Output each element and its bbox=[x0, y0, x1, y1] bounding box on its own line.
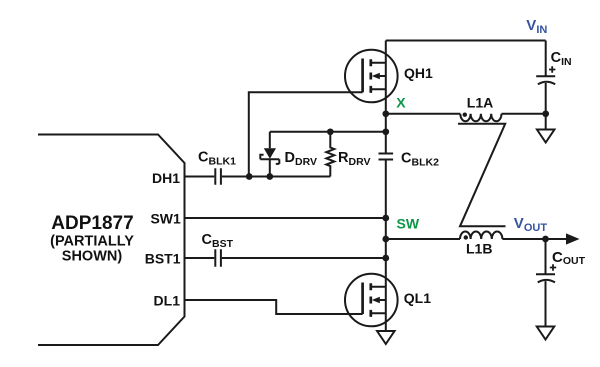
coupled core Z-link bbox=[458, 124, 506, 227]
wire SW line to L1B bbox=[386, 238, 460, 240]
output arrow V_OUT bbox=[566, 233, 580, 244]
capacitor C_BLK1 bbox=[215, 168, 221, 184]
junction SW/L1B line bbox=[382, 236, 389, 243]
junction BST line bbox=[382, 255, 389, 262]
wire ground stub under C_IN bbox=[545, 114, 547, 130]
wire X node line to L1A bbox=[386, 113, 461, 115]
svg-text:SW: SW bbox=[397, 216, 420, 232]
transistor QH1 arrow bbox=[372, 73, 380, 79]
wire main vertical: C_BLK2 bottom to ground bbox=[385, 160, 387, 332]
junction topwire/R_DRV bbox=[327, 128, 334, 135]
wire DH1 pin to C_BLK1 bbox=[185, 176, 215, 178]
diode D_DRV body bbox=[264, 148, 276, 159]
wire top rail to C_IN bbox=[386, 40, 546, 42]
svg-text:SHOWN): SHOWN) bbox=[62, 249, 123, 265]
svg-text:BST1: BST1 bbox=[145, 251, 181, 267]
svg-text:DL1: DL1 bbox=[154, 293, 181, 309]
wire BST1 pin to C_BST bbox=[185, 257, 215, 259]
inductor L1A bbox=[460, 114, 501, 122]
wire L1B to V_OUT node bbox=[502, 238, 566, 240]
svg-text:(PARTIALLY: (PARTIALLY bbox=[50, 234, 134, 250]
resistor R_DRV bbox=[326, 132, 334, 177]
junction V_OUT/C_OUT bbox=[542, 236, 549, 243]
IC U1 ADP1877 outline bbox=[38, 135, 185, 346]
wire L1A to C_IN junction bbox=[502, 113, 546, 115]
phase dot L1B bbox=[464, 235, 468, 239]
wire C_BST to BST junction bbox=[222, 257, 386, 259]
svg-text:QH1: QH1 bbox=[404, 65, 433, 81]
wire C_BLK1 to R_DRV bottom bbox=[222, 176, 330, 178]
svg-text:DH1: DH1 bbox=[152, 170, 180, 186]
ground under C_OUT bbox=[537, 327, 555, 340]
wire DL1 pin to QL1 gate bbox=[185, 300, 363, 314]
transistor QL1 bbox=[345, 274, 398, 327]
svg-text:L1B: L1B bbox=[466, 241, 492, 257]
svg-text:SW1: SW1 bbox=[150, 211, 181, 227]
svg-text:L1A: L1A bbox=[467, 95, 493, 111]
wire C_OUT bottom to ground bbox=[545, 281, 547, 326]
capacitor C_IN polarized bbox=[536, 76, 555, 84]
diode D_DRV cathode bar with schottky hooks bbox=[260, 155, 279, 164]
junction DH1/gate bbox=[246, 173, 253, 180]
ground under C_IN bbox=[537, 130, 555, 143]
svg-text:X: X bbox=[396, 95, 406, 111]
transistor QH1 bbox=[345, 50, 398, 103]
diode D_DRV cathode lead bbox=[269, 159, 271, 176]
svg-text:ADP1877: ADP1877 bbox=[51, 213, 133, 234]
phase dot L1A bbox=[463, 113, 467, 117]
wire C_IN bottom to junction bbox=[545, 83, 547, 114]
wire SW1 pin to SW node bbox=[185, 217, 386, 219]
wire C_OUT top lead bbox=[545, 239, 547, 274]
junction topwire/C_BLK2 line bbox=[382, 128, 389, 135]
wire C_IN top lead bbox=[545, 41, 547, 77]
inductor L1B bbox=[460, 231, 502, 239]
junction DH1/D_DRV bbox=[266, 173, 273, 180]
svg-text:QL1: QL1 bbox=[404, 290, 431, 306]
ground under QL1 bbox=[377, 331, 395, 344]
diode D_DRV anode lead bbox=[269, 132, 271, 149]
plus sign C_IN bbox=[549, 66, 556, 270]
wire top wire D_DRV/R_DRV to C_BLK2 line bbox=[270, 131, 386, 133]
capacitor C_OUT polarized bbox=[536, 274, 555, 282]
node SW junction bbox=[382, 215, 389, 222]
transistor QL1 arrow bbox=[372, 297, 380, 303]
junction L1A/C_IN/ground bbox=[542, 110, 549, 117]
plus sign C_OUT bbox=[550, 264, 556, 270]
capacitor C_BLK2 bbox=[379, 154, 394, 160]
capacitor C_BST bbox=[215, 249, 221, 267]
node X junction bbox=[382, 110, 389, 117]
wire QH1 gate line bbox=[249, 92, 363, 176]
wire main vertical: top rail corner through QH1 to C_BLK2 top plate bbox=[385, 41, 387, 154]
